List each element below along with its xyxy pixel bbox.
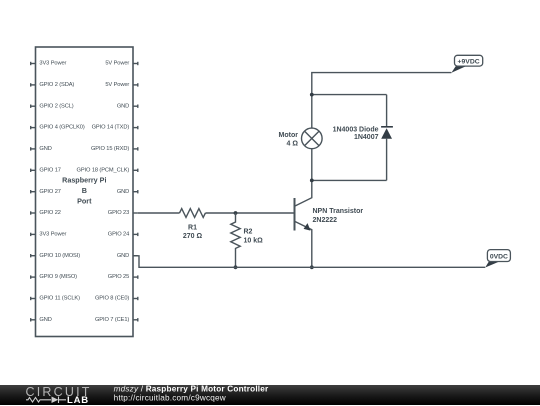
pin 8 left "GPIO 22" [31, 211, 36, 214]
svg-text:0VDC: 0VDC [490, 253, 508, 260]
svg-text:GPIO 9 (MISO): GPIO 9 (MISO) [39, 274, 77, 280]
pin 15 right "5V Power" [133, 83, 138, 86]
Q1 label "NPN Transistor / 2N2222" [313, 208, 364, 224]
pin 20 right "GND" [133, 190, 138, 193]
svg-text:+9VDC: +9VDC [458, 58, 480, 65]
svg-text:GPIO 2 (SCL): GPIO 2 (SCL) [39, 103, 73, 109]
svg-text:GND: GND [39, 317, 51, 323]
svg-text:4 Ω: 4 Ω [287, 140, 299, 147]
svg-text:GPIO 14 (TXD): GPIO 14 (TXD) [92, 125, 130, 131]
svg-text:GPIO 27: GPIO 27 [39, 189, 60, 195]
svg-text:1N4007: 1N4007 [354, 134, 379, 141]
net flag +9VDC [451, 55, 482, 73]
svg-text:Raspberry Pi: Raspberry Pi [62, 176, 106, 185]
wire +9V top rail [312, 73, 452, 95]
wire top junction to diode top [312, 94, 387, 96]
pin 22 right "GPIO 24" [133, 233, 138, 236]
diode D1 anode triangle [381, 128, 392, 139]
resistor R2 [231, 213, 240, 267]
node junction R1/R2 [234, 211, 238, 215]
pin 21 right "GPIO 23" [133, 212, 138, 214]
resistor R1 [180, 209, 206, 218]
CircuitLab footer bar [0, 385, 540, 406]
pin 24 right "GPIO 25" [133, 275, 138, 278]
wire GND pin to 0V rail [133, 256, 485, 267]
pin 19 right "GPIO 18 (PCM_CLK)" [133, 169, 138, 172]
svg-text:GPIO 7 (CE1): GPIO 7 (CE1) [95, 317, 129, 323]
pin 4 left "GPIO 4 (GPCLK0)" [31, 126, 36, 129]
pin 6 left "GPIO 17" [31, 169, 36, 172]
diode D1 cathode bar [381, 126, 393, 128]
svg-text:GND: GND [117, 253, 129, 259]
svg-text:GPIO 2 (SDA): GPIO 2 (SDA) [39, 82, 74, 88]
svg-text:http://circuitlab.com/c9wcqew: http://circuitlab.com/c9wcqew [114, 393, 226, 402]
D1 label "1N4003 Diode / 1N4007" [333, 126, 379, 141]
svg-text:5V Power: 5V Power [105, 82, 129, 88]
svg-text:2N2222: 2N2222 [313, 217, 338, 224]
svg-text:GPIO 24: GPIO 24 [108, 232, 129, 238]
wire motor top [311, 95, 313, 129]
svg-text:GPIO 18 (PCM_CLK): GPIO 18 (PCM_CLK) [77, 167, 130, 173]
svg-text:GND: GND [39, 146, 51, 152]
pin 13 left "GND" [31, 318, 36, 321]
node junction R2 bottom / 0V rail [234, 265, 238, 269]
svg-text:10 kΩ: 10 kΩ [244, 237, 264, 244]
svg-text:GPIO 8 (CE0): GPIO 8 (CE0) [95, 296, 129, 302]
net flag 0VDC [485, 250, 510, 268]
svg-text:GPIO 25: GPIO 25 [108, 274, 129, 280]
svg-text:270 Ω: 270 Ω [183, 233, 203, 240]
svg-text:Port: Port [77, 197, 92, 206]
svg-text:5V Power: 5V Power [105, 61, 129, 67]
svg-text:GND: GND [117, 103, 129, 109]
svg-text:3V3 Power: 3V3 Power [39, 232, 66, 238]
node junction motor/diode top [310, 93, 314, 97]
svg-text:B: B [82, 186, 87, 195]
node junction motor/diode bottom [310, 179, 314, 183]
svg-text:mdszy / Raspberry Pi Motor Con: mdszy / Raspberry Pi Motor Controller [114, 385, 269, 393]
logo resistor zigzag [26, 397, 51, 402]
pin 14 right "5V Power" [133, 62, 138, 65]
svg-text:GPIO 11 (SCLK): GPIO 11 (SCLK) [39, 296, 80, 302]
pin 11 left "GPIO 9 (MISO)" [31, 275, 36, 278]
pin 9 left "3V3 Power" [31, 233, 36, 236]
pin 10 left "GPIO 10 (MOSI)" [31, 254, 36, 257]
R1 value label "R1 / 270 Ohm" [183, 224, 203, 240]
pin 25 right "GPIO 8 (CE0)" [133, 297, 138, 300]
wire GPIO 23 pin to R1 [138, 212, 180, 214]
IC U1 Raspberry Pi B Port body [36, 47, 134, 337]
svg-text:GPIO 22: GPIO 22 [39, 210, 60, 216]
pin 5 left "GND" [31, 147, 36, 150]
R2 value label "R2 / 10 kOhm" [244, 228, 264, 244]
svg-text:R2: R2 [244, 228, 253, 235]
wire diode bottom to collector [312, 179, 387, 181]
pin 12 left "GPIO 11 (SCLK)" [31, 297, 36, 300]
pin 23 right "GND" [133, 255, 138, 257]
transistor Q1 emitter arrow [304, 223, 311, 231]
IC U1 name label "Raspberry Pi B Port" [62, 176, 106, 206]
node junction Q1 emitter / 0V rail [310, 265, 314, 269]
logo diode symbol [52, 396, 59, 403]
wire motor bottom [311, 149, 313, 181]
wire R1 to Q1 base [205, 212, 294, 214]
pin 16 right "GND" [133, 105, 138, 108]
svg-text:Motor: Motor [279, 132, 299, 139]
pin 26 right "GPIO 7 (CE1)" [133, 318, 138, 321]
pin 3 left "GPIO 2 (SCL)" [31, 105, 36, 108]
svg-text:LAB: LAB [67, 395, 89, 406]
svg-text:GPIO 10 (MOSI): GPIO 10 (MOSI) [39, 253, 80, 259]
pin 17 right "GPIO 14 (TXD)" [133, 126, 138, 129]
svg-text:R1: R1 [188, 224, 197, 231]
pin 18 right "GPIO 15 (RXD)" [133, 147, 138, 150]
pin 1 left "3V3 Power" [31, 62, 36, 65]
svg-text:GPIO 15 (RXD): GPIO 15 (RXD) [91, 146, 129, 152]
svg-text:GPIO 23: GPIO 23 [108, 210, 129, 216]
pin 7 left "GPIO 27" [31, 190, 36, 193]
svg-text:3V3 Power: 3V3 Power [39, 61, 66, 67]
svg-text:GND: GND [117, 189, 129, 195]
pin 2 left "GPIO 2 (SDA)" [31, 83, 36, 86]
svg-text:GPIO 4 (GPCLK0): GPIO 4 (GPCLK0) [39, 125, 84, 131]
diode D1 leads [386, 95, 388, 181]
svg-text:NPN Transistor: NPN Transistor [313, 208, 364, 215]
svg-text:GPIO 17: GPIO 17 [39, 167, 60, 173]
motor M1 symbol (circle with X) [302, 128, 323, 149]
svg-text:1N4003 Diode: 1N4003 Diode [333, 126, 379, 133]
M1 label "Motor / 4 Ohm" [279, 132, 299, 147]
transistor Q1 2N2222 body [295, 180, 312, 267]
